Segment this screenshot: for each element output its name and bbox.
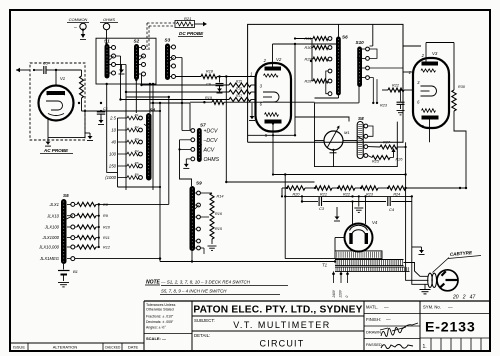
- svg-text:40: 40: [111, 140, 116, 145]
- svg-text:—: —: [386, 317, 391, 322]
- svg-text:R18: R18: [206, 70, 214, 74]
- svg-text:250: 250: [108, 164, 117, 169]
- svg-text:R15: R15: [215, 227, 223, 231]
- svg-text:JLX1000: JLX1000: [41, 235, 59, 240]
- svg-text:20 2 47: 20 2 47: [452, 295, 475, 301]
- svg-text:E-2133: E-2133: [425, 320, 476, 336]
- svg-text:FINISH:: FINISH:: [366, 317, 381, 322]
- svg-text:V4: V4: [372, 220, 378, 225]
- svg-text:S8: S8: [358, 116, 364, 121]
- svg-text:+DCV: +DCV: [204, 129, 219, 135]
- svg-text:V.T. MULTIMETER: V.T. MULTIMETER: [233, 320, 331, 330]
- svg-text:JLX1: JLX1: [48, 202, 59, 207]
- svg-text:1.: 1.: [423, 344, 427, 350]
- svg-text:R30: R30: [458, 85, 466, 89]
- svg-text:B1: B1: [73, 269, 78, 274]
- svg-text:V1: V1: [60, 76, 65, 81]
- svg-text:2.5: 2.5: [109, 116, 116, 121]
- svg-text:SUBJECT:: SUBJECT:: [194, 318, 215, 323]
- svg-text:1: 1: [250, 72, 252, 77]
- svg-text:S5: S5: [63, 193, 69, 198]
- svg-text:JLX100: JLX100: [44, 225, 60, 230]
- svg-text:V3: V3: [432, 51, 438, 56]
- svg-text:ALTERATION: ALTERATION: [53, 345, 78, 350]
- svg-text:R27: R27: [383, 141, 391, 145]
- svg-text:Decimals: ± .005″: Decimals: ± .005″: [146, 320, 174, 324]
- svg-text:100: 100: [109, 152, 117, 157]
- svg-text:240V: 240V: [332, 289, 336, 298]
- svg-text:R22: R22: [343, 193, 351, 197]
- svg-text:R16: R16: [215, 212, 223, 216]
- svg-text:R5: R5: [135, 161, 139, 165]
- svg-text:S2: S2: [134, 39, 140, 44]
- svg-text:C3: C3: [319, 206, 325, 211]
- svg-text:R24: R24: [393, 193, 400, 197]
- svg-text:R6: R6: [135, 172, 139, 176]
- svg-text:Angles: ± ½°: Angles: ± ½°: [146, 326, 166, 330]
- svg-text:AC PROBE: AC PROBE: [43, 148, 69, 153]
- svg-text:SYM. No.: SYM. No.: [423, 305, 441, 310]
- svg-text:T1: T1: [322, 263, 328, 268]
- svg-text:JLX1MEG: JLX1MEG: [39, 256, 60, 261]
- svg-text:R3: R3: [135, 137, 139, 141]
- svg-text:M1: M1: [344, 130, 350, 135]
- svg-text:S5, 7, 8, 9 – 4 INCH IVE SWITC: S5, 7, 8, 9 – 4 INCH IVE SWITCH: [161, 289, 227, 294]
- svg-text:R26: R26: [396, 158, 404, 162]
- svg-text:DC PROBE: DC PROBE: [179, 31, 204, 36]
- svg-text:R4: R4: [135, 149, 139, 153]
- svg-text:10: 10: [111, 128, 116, 133]
- svg-text:220V: 220V: [339, 289, 343, 298]
- svg-text:JLX10: JLX10: [46, 213, 60, 218]
- svg-text:CHECKED: CHECKED: [105, 345, 121, 349]
- svg-text:JLX10,000: JLX10,000: [38, 245, 60, 250]
- svg-text:R11: R11: [103, 236, 110, 240]
- svg-text:DETAIL:: DETAIL:: [194, 333, 210, 338]
- svg-text:–DCV: –DCV: [203, 138, 218, 144]
- svg-text:—: —: [384, 305, 389, 310]
- svg-text:S3: S3: [165, 38, 171, 43]
- svg-text:R16: R16: [236, 87, 242, 91]
- svg-text:R15: R15: [236, 80, 242, 84]
- svg-text:OHMS: OHMS: [204, 157, 220, 163]
- svg-text:S1: S1: [104, 39, 110, 44]
- svg-text:R28: R28: [305, 79, 313, 83]
- svg-text:— S1, 2, 3, 7, 8, 10 – 3 DECK: — S1, 2, 3, 7, 8, 10 – 3 DECK RE4 SWITCH: [160, 280, 251, 285]
- svg-text:R17: R17: [236, 94, 242, 98]
- svg-text:DRAWN: DRAWN: [366, 330, 381, 335]
- svg-text:DATE: DATE: [128, 345, 139, 350]
- svg-text:SCALE: —: SCALE: —: [146, 336, 166, 341]
- svg-text:0: 0: [345, 296, 349, 298]
- svg-text:R23: R23: [380, 104, 388, 108]
- svg-text:OHMS: OHMS: [103, 17, 115, 22]
- svg-text:C4: C4: [389, 207, 395, 212]
- svg-text:PATON ELEC. PTY. LTD., SYDNEY: PATON ELEC. PTY. LTD., SYDNEY: [193, 305, 362, 316]
- svg-text:ACV: ACV: [203, 147, 215, 153]
- svg-text:ISSUE: ISSUE: [13, 345, 25, 350]
- svg-text:R30: R30: [305, 46, 313, 50]
- svg-text:R19: R19: [205, 96, 213, 100]
- svg-text:R10: R10: [103, 226, 111, 230]
- svg-text:S7: S7: [200, 123, 206, 128]
- svg-text:—: —: [448, 305, 453, 310]
- svg-text:1: 1: [409, 70, 411, 75]
- svg-text:Otherwise Stated: Otherwise Stated: [146, 308, 174, 312]
- svg-text:R25: R25: [372, 160, 380, 164]
- svg-text:R2: R2: [135, 125, 139, 129]
- svg-text:R1: R1: [135, 113, 139, 117]
- svg-text:(1000: (1000: [105, 175, 116, 180]
- svg-text:R12: R12: [103, 246, 111, 250]
- svg-text:COMMON: COMMON: [69, 17, 88, 22]
- svg-text:S6: S6: [342, 35, 348, 40]
- svg-text:PASSED: PASSED: [366, 342, 382, 347]
- svg-text:Fractions: ± .010″: Fractions: ± .010″: [146, 315, 174, 319]
- svg-text:R22: R22: [392, 84, 400, 88]
- svg-text:CIRCUIT: CIRCUIT: [260, 339, 305, 349]
- svg-text:S4: S4: [150, 108, 156, 113]
- svg-text:S10: S10: [356, 40, 365, 45]
- svg-text:R21: R21: [320, 193, 327, 197]
- svg-text:R23: R23: [366, 193, 374, 197]
- svg-text:Tolerances Unless: Tolerances Unless: [146, 303, 176, 307]
- svg-text:R14: R14: [217, 195, 224, 199]
- svg-text:V2: V2: [276, 57, 282, 62]
- svg-text:R20: R20: [293, 193, 301, 197]
- svg-text:S9: S9: [196, 181, 202, 186]
- svg-text:–: –: [73, 25, 77, 31]
- svg-text:MATL.: MATL.: [366, 305, 378, 310]
